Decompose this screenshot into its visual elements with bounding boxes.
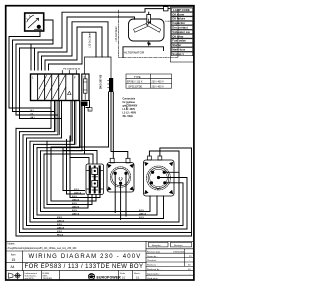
contact under breaker (81, 101, 92, 112)
svg-text:Oil relay: Oil relay (172, 34, 183, 38)
wire right vertical bus (191, 233, 193, 237)
svg-text:WIRING DIAGRAM 230 - 400V: WIRING DIAGRAM 230 - 400V (28, 254, 141, 260)
top wire run 3 (42, 22, 109, 70)
wire feed a (63, 151, 97, 165)
wire nest v4 (26, 138, 28, 226)
svg-text:EPS133TDE: EPS133TDE (129, 85, 143, 88)
wire contact b corner (44, 153, 85, 155)
wire nest v1 (15, 128, 17, 236)
bus line 5 (47, 204, 92, 206)
svg-text:L5B 1.5: L5B 1.5 (139, 213, 147, 215)
svg-text:Schurhoven-: Schurhoven- (25, 275, 37, 278)
wire feed b (67, 154, 94, 164)
top wire run 5 (49, 32, 97, 70)
wire to fuse top right (168, 8, 170, 10)
voltmeter P1 (25, 13, 44, 31)
bus line 12 (23, 228, 187, 230)
svg-text:L3B 2.5: L3B 2.5 (57, 227, 65, 229)
notes row divider (6, 241, 194, 270)
wire nest v3 (22, 135, 24, 229)
REVISION TABLE (146, 242, 194, 275)
wire F5 down a (51, 92, 109, 201)
svg-text:EUROPOWER: EUROPOWER (97, 275, 122, 279)
LEGEND table (170, 7, 193, 62)
bottom bus lines (16, 191, 192, 237)
wire left v3 down (15, 44, 17, 115)
wire meter right (16, 20, 53, 44)
bus line 4 (51, 200, 96, 202)
top wire run 1 (20, 9, 164, 70)
connection notes text block (123, 98, 138, 119)
svg-text:Voltmeter sw.: Voltmeter sw. (172, 30, 190, 34)
wire bus5 vertical (46, 141, 48, 204)
bus line 8 (37, 214, 157, 216)
svg-text:L2B 2.5: L2B 2.5 (57, 220, 65, 222)
bus labels column 2 (139, 210, 147, 219)
wire branch bus2 (66, 140, 68, 195)
wire nest v7 (36, 148, 38, 215)
svg-text:veld 4255: veld 4255 (25, 278, 35, 280)
svg-text:L1B-3x2.5mm²: L1B-3x2.5mm² (115, 26, 118, 42)
svg-text:Socket 1: Socket 1 (172, 52, 184, 56)
svg-text:F1.1 00.01 00.11: F1.1 00.01 00.11 (64, 68, 81, 70)
wire contact b (84, 106, 86, 154)
svg-text:13/05/2008: 13/05/2008 (173, 251, 185, 253)
svg-text:Dry contact: Dry contact (172, 26, 187, 30)
svg-text:LAMP CODE: LAMP CODE (173, 8, 190, 12)
svg-text:Sheet: Sheet (134, 272, 140, 275)
triangle symbol in block (68, 91, 72, 94)
svg-text:Replaced by :: Replaced by : (147, 269, 161, 271)
svg-text:Notes:: Notes: (8, 242, 16, 246)
svg-text:Oil failure: Oil failure (172, 17, 185, 21)
svg-text:Oil alarm: Oil alarm (172, 12, 184, 16)
wire contact a (81, 106, 83, 151)
svg-text:F: F (74, 76, 76, 80)
socket X4 (32A CEE) (144, 156, 175, 196)
nest verticals (16, 128, 44, 236)
wire fan 7 (37, 101, 80, 148)
wire x2 d4 (99, 195, 101, 198)
svg-text:TYPE: TYPE (134, 76, 141, 79)
wire feed c (70, 158, 89, 165)
block top stubs right columns (62, 71, 76, 75)
wire nest v8 (40, 151, 42, 212)
bus line 3 (70, 197, 100, 199)
wire fan 5 (30, 101, 71, 142)
wire fan 4 (20, 101, 62, 139)
alternator fan G1 (134, 19, 161, 32)
wire nest v5 (29, 141, 31, 222)
svg-text:Remarks: Remarks (152, 244, 162, 247)
svg-text:L1B 1.5: L1B 1.5 (74, 192, 82, 194)
svg-text:Starter: Starter (172, 43, 182, 47)
exciter resistor on alternator (147, 15, 151, 25)
legend row labels (172, 8, 190, 56)
svg-text:FOR EPS83 / 113 / 133TDE NEW B: FOR EPS83 / 113 / 133TDE NEW BOY (25, 264, 144, 270)
socket X3 pin wires down (115, 173, 126, 219)
bus line 6 (44, 207, 88, 209)
socket X3 (16A CEE) (107, 158, 134, 192)
wire left v2 down (12, 40, 14, 112)
svg-text:Scale: Scale (120, 273, 126, 275)
svg-text:DKG-207-05: DKG-207-05 (100, 74, 103, 89)
wire contact a corner (41, 150, 83, 152)
TITLEBLOCK (6, 241, 194, 280)
bus line 11 (27, 225, 184, 227)
svg-text:Revision: Revision (174, 245, 183, 247)
svg-text:L5B 1.5: L5B 1.5 (72, 213, 80, 215)
svg-text:Replaces :: Replaces : (147, 265, 158, 267)
top wire run 4 (45, 27, 102, 70)
wire nest v2 (19, 132, 21, 233)
wire nest v9 (43, 154, 45, 208)
breaker box S1 (82, 74, 89, 101)
bus line 9 (34, 218, 164, 220)
wire x2 d2 (91, 195, 93, 205)
wire block stub c1 (30, 44, 32, 70)
bus labels column 1 (57, 189, 82, 237)
wire left v4 down (19, 48, 21, 119)
svg-text:Checked :: Checked : (147, 260, 157, 262)
bus line 1 (63, 190, 85, 192)
wire fan 2 (13, 101, 55, 132)
wire fan 6 (34, 101, 75, 145)
wire fan 1 (9, 101, 51, 129)
alternator group boundary (dash-dot) (119, 10, 178, 58)
svg-text:A4: A4 (11, 265, 15, 269)
alternator output arrow (148, 41, 150, 45)
top wire run 2 (38, 17, 135, 70)
wire x2 d1 (87, 195, 89, 209)
wire bus1 vertical (62, 147, 64, 191)
fan wire labels group (31, 110, 36, 119)
left long verticals (9, 37, 20, 119)
socket X4 wires right (159, 172, 188, 229)
svg-text:S: S (84, 75, 86, 79)
svg-text:EPS83 / 113 X: EPS83 / 113 X (127, 81, 143, 84)
svg-text:for 3-phase: for 3-phase (123, 102, 136, 104)
svg-text:L5B 2.5: L5B 2.5 (72, 199, 80, 201)
svg-text:TRUIDEN: TRUIDEN (43, 278, 53, 280)
svg-text:L1B-3x1.5mm²: L1B-3x1.5mm² (89, 32, 92, 48)
svg-text:Connection: Connection (123, 98, 136, 101)
border frame (6, 6, 194, 280)
svg-text:L6B 2.5: L6B 2.5 (72, 206, 80, 208)
svg-text:3N~ 50Hz: 3N~ 50Hz (123, 116, 134, 118)
wire branch bus3 (69, 136, 71, 198)
socket X2 (schuko) (86, 164, 104, 195)
svg-text:PE 2.5: PE 2.5 (57, 234, 64, 236)
svg-text:Used parts :: Used parts : (147, 277, 159, 280)
svg-text:L5B 1.5: L5B 1.5 (127, 102, 129, 110)
svg-text:Capacitor: Capacitor (172, 21, 186, 25)
svg-text:Supersedes :: Supersedes : (147, 272, 160, 275)
svg-text:Industriezone: Industriezone (25, 272, 38, 275)
alternator winding loop (129, 19, 165, 41)
EUROPOWER logo (88, 273, 121, 280)
wire fan pair lines (56, 101, 81, 148)
svg-text:Main fuse: Main fuse (172, 48, 185, 52)
bus line 2 (67, 193, 85, 195)
wire F5 down b (111, 92, 128, 158)
TYPE table (126, 74, 172, 88)
svg-text:L1-L2 : 400V: L1-L2 : 400V (123, 112, 137, 115)
svg-text:230 / 400 V: 230 / 400 V (152, 81, 165, 84)
socket feeder corners (63, 151, 97, 165)
terminal block X1 (31, 74, 80, 101)
socket X4 wires down (150, 196, 164, 219)
projection symbol (9, 273, 22, 280)
svg-text:Z:\egd\files\wiring\diagrams\e: Z:\egd\files\wiring\diagrams\eps83_113_1… (8, 247, 78, 250)
bottom row cell dividers (24, 271, 133, 281)
socket X4 top feed loop (149, 151, 179, 172)
svg-text:ALTERNATOR: ALTERNATOR (124, 51, 145, 55)
svg-text:Item: Item (11, 254, 16, 257)
svg-text:230 / 400 V: 230 / 400 V (152, 85, 165, 88)
svg-text:grid 230/400V: grid 230/400V (123, 105, 138, 108)
wire left v1 down (8, 37, 10, 109)
svg-text:15: 15 (12, 258, 16, 262)
wire F5 down c (112, 92, 114, 158)
socket X2 bottom wires (88, 195, 100, 209)
svg-text:Fuel valve: Fuel valve (172, 39, 186, 43)
titleblock cells left column (23, 241, 147, 280)
fuse/relay F5 mid (85, 57, 114, 92)
svg-text:L1-N : 230V: L1-N : 230V (123, 109, 136, 111)
wire branch v2 (13, 39, 54, 41)
svg-text:Drawn by :: Drawn by : (147, 255, 158, 258)
bus line 14 (16, 235, 192, 237)
wire nest v6 (33, 144, 35, 218)
bus line 7 (41, 211, 151, 213)
wire fan 3 (16, 101, 58, 135)
alternator output bus (123, 47, 164, 58)
fuse F4 top right (164, 7, 169, 11)
bus line 13 (20, 232, 192, 234)
bus line 10 (30, 221, 179, 223)
svg-text:Revision date: Revision date (147, 250, 161, 253)
right nest vertical 2 (160, 148, 192, 233)
wire x2 d3 (95, 195, 97, 202)
wire meter bottom (9, 31, 40, 37)
block fan wires down (9, 101, 85, 155)
